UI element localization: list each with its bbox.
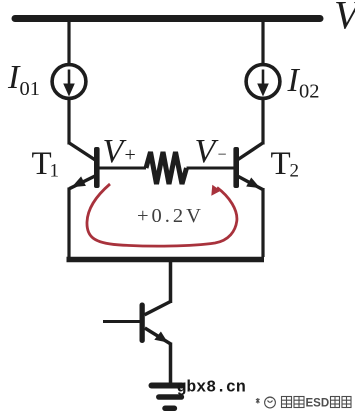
svg-text:T: T: [271, 146, 291, 182]
svg-text:02: 02: [299, 81, 320, 103]
svg-text:gbx8.cn: gbx8.cn: [177, 378, 246, 397]
svg-text:2: 2: [290, 161, 300, 182]
svg-text:01: 01: [20, 78, 41, 100]
svg-text:V: V: [195, 133, 220, 170]
svg-text:ESD: ESD: [306, 398, 330, 410]
svg-text:V: V: [334, 0, 355, 38]
svg-text:−: −: [218, 147, 227, 164]
svg-text:1: 1: [50, 161, 60, 182]
svg-text:+0.2V: +0.2V: [137, 205, 204, 227]
svg-text:+: +: [125, 144, 136, 166]
